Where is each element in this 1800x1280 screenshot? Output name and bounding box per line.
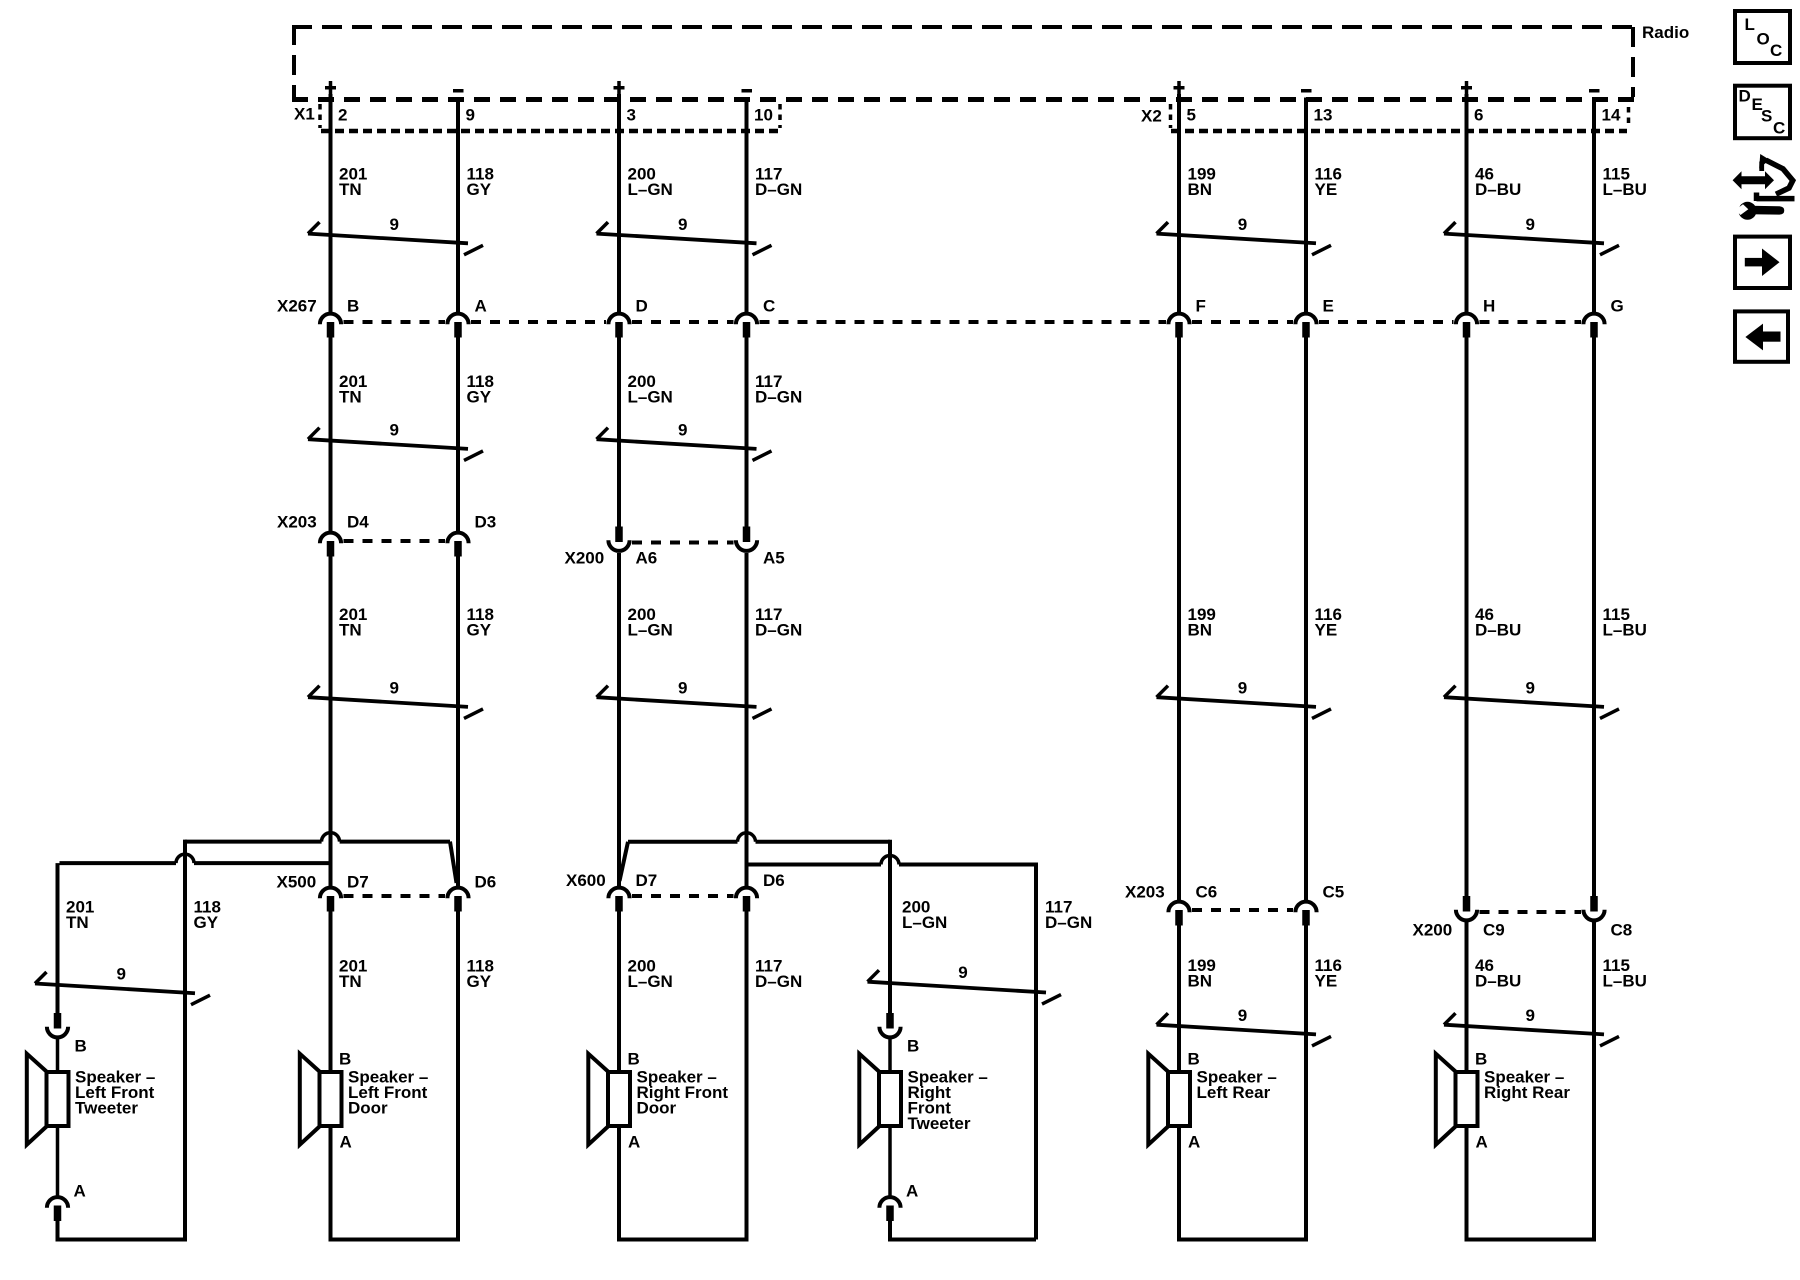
twisted pair 9 (cols 3-4, row 3) [597,697,757,707]
svg-text:C6: C6 [1196,883,1218,902]
svg-text:D: D [636,297,648,316]
svg-text:D–BU: D–BU [1475,972,1521,991]
X200 dashed line [632,541,734,545]
svg-text:D6: D6 [763,871,785,890]
icon box arrow left [1735,311,1788,361]
svg-text:D–BU: D–BU [1475,180,1521,199]
connector X200 pin C8 [1590,896,1598,912]
X200 rear dashed line [1480,910,1582,914]
X600 dashed line [632,894,734,898]
twisted pair 9 (cols 5-6, row 1) [1157,234,1317,244]
svg-text:C: C [763,297,775,316]
branch wire left tweeter + (TN) [194,861,331,865]
svg-text:Left Rear: Left Rear [1197,1083,1271,1102]
svg-text:X200: X200 [1413,921,1453,940]
wire 200 L-GN radio pin 3 to X267 [617,94,621,312]
connector X600 pin D6 [736,888,757,899]
svg-text:9: 9 [1238,1006,1247,1025]
wire 200 L-GN X200 to X600 [617,553,621,886]
wire 199 BN radio pin 5 to X267 [1177,94,1181,312]
svg-text:Right Rear: Right Rear [1484,1083,1570,1102]
svg-text:2: 2 [338,106,347,125]
connector X267 pin C [736,314,757,325]
wire 118 GY radio pin 9 to X267 [456,98,460,313]
svg-text:L–BU: L–BU [1603,621,1647,640]
svg-text:9: 9 [390,215,399,234]
left door loop [331,910,459,1240]
svg-text:Door: Door [348,1099,388,1118]
svg-text:C: C [1770,41,1782,60]
wire 200 L-GN X267 to X200 [617,337,621,527]
svg-text:D–GN: D–GN [755,180,802,199]
svg-text:Radio: Radio [1642,23,1689,42]
svg-text:9: 9 [678,215,687,234]
polarity - above pin col6 [1301,89,1312,93]
svg-text:L–BU: L–BU [1603,180,1647,199]
svg-text:A: A [906,1182,918,1201]
svg-text:D7: D7 [636,871,658,890]
hop over tweeter + leg [881,856,899,865]
svg-text:GY: GY [467,388,492,407]
inline connector B (right tweeter) [886,1013,894,1029]
svg-text:B: B [628,1050,640,1069]
connector X267 pin G [1583,314,1604,325]
connector X267 pin A [447,314,468,325]
hop over D-GN wire [738,833,756,842]
icon box DESC [1735,86,1790,139]
svg-text:A: A [340,1133,352,1152]
polarity + above pin col5 [1174,86,1185,90]
wire 46 D-BU X267 to X200 [1465,337,1469,897]
svg-text:C: C [1773,119,1785,138]
svg-text:A5: A5 [763,549,785,568]
svg-text:GY: GY [194,913,219,932]
wire 46 D-BU radio pin 6 to X267 [1465,94,1469,312]
svg-text:Tweeter: Tweeter [75,1099,138,1118]
left rear loop [1179,924,1306,1240]
svg-text:L–GN: L–GN [628,180,673,199]
twisted pair 9 (right rear) [1444,1025,1604,1035]
svg-text:GY: GY [467,972,492,991]
svg-text:X500: X500 [277,873,317,892]
svg-text:TN: TN [66,913,89,932]
svg-text:C5: C5 [1323,883,1345,902]
wire 116 YE radio pin 13 to X267 [1304,98,1308,313]
speaker icon Speaker - Left Front Tweeter [47,1072,69,1126]
svg-text:L–GN: L–GN [902,913,947,932]
wire into speaker B (right tweeter) [888,1039,892,1070]
svg-text:3: 3 [627,106,636,125]
svg-text:L: L [1745,15,1755,34]
connector X267 pin E [1295,314,1316,325]
wire 201 TN X267 to X203 [329,337,333,531]
twisted pair 9 (cols 1-2, row 2) [308,439,468,449]
svg-text:9: 9 [390,420,399,439]
svg-text:X600: X600 [566,871,606,890]
svg-text:L–GN: L–GN [628,972,673,991]
polarity - above pin col4 [742,89,753,93]
svg-text:X2: X2 [1141,107,1162,126]
svg-text:BN: BN [1188,621,1213,640]
icon tools/adjust [1733,171,1774,189]
svg-text:B: B [347,297,359,316]
svg-text:BN: BN [1188,972,1213,991]
speaker icon Speaker - Right Front Tweeter [879,1072,901,1126]
svg-text:9: 9 [1238,678,1247,697]
svg-text:Tweeter: Tweeter [908,1114,971,1133]
svg-text:D–BU: D–BU [1475,621,1521,640]
svg-text:E: E [1323,297,1334,316]
connector X500 pin D6 [447,888,468,899]
connector X200 pin A5 [743,527,751,543]
twisted pair 9 (cols 3-4, row 1) [597,234,757,244]
connector X500 pin D7 [320,888,341,899]
svg-text:B: B [1475,1050,1487,1069]
svg-text:D: D [1739,87,1751,106]
connector X203 pin C6 [1168,902,1189,913]
wire X200 C9 to rear speaker [1465,921,1469,1070]
twisted pair 9 (cols 7-8, row 1) [1444,234,1604,244]
polarity + above pin col7 [1461,86,1472,90]
svg-text:D–GN: D–GN [1045,913,1092,932]
svg-text:GY: GY [467,180,492,199]
wire into speaker B (left tweeter) [56,1039,60,1070]
svg-text:TN: TN [339,621,362,640]
svg-text:9: 9 [466,106,475,125]
svg-text:C9: C9 [1483,921,1505,940]
svg-text:A: A [628,1133,640,1152]
inline connector A (left tweeter) [47,1197,68,1208]
svg-text:L–BU: L–BU [1603,972,1647,991]
svg-text:D–GN: D–GN [755,972,802,991]
polarity - above pin col8 [1589,89,1600,93]
icon box arrow right [1735,237,1790,288]
svg-text:H: H [1483,297,1495,316]
twisted pair 9 (right tweeter) [868,982,1047,993]
wire 115 L-BU radio pin 14 to X267 [1592,98,1596,313]
right door loop [619,910,747,1240]
svg-text:G: G [1611,297,1624,316]
svg-text:C8: C8 [1611,921,1633,940]
connector X200 pin C9 [1463,896,1471,912]
wire right tweeter A to loop [890,1221,1036,1240]
wire X500 D7 to door speaker [329,910,333,1070]
twisted pair 9 (cols 7-8, row 3) [1444,697,1604,707]
svg-text:9: 9 [1526,678,1535,697]
svg-text:YE: YE [1315,180,1338,199]
svg-text:A: A [1188,1133,1200,1152]
svg-text:D7: D7 [347,873,369,892]
svg-text:9: 9 [390,678,399,697]
radio component dashed box [292,25,1635,29]
wire X600 D7 to door speaker [617,910,621,1070]
connector X267 pin B [320,314,341,325]
X203 rear dashed line [1192,908,1293,912]
speaker icon Speaker - Left Rear [1168,1072,1190,1126]
polarity + above pin col1 [325,86,336,90]
svg-text:X200: X200 [565,549,605,568]
svg-text:D6: D6 [475,873,497,892]
svg-text:6: 6 [1474,106,1483,125]
svg-text:A6: A6 [636,549,658,568]
wire 117 D-GN X200 to X600 [745,553,749,886]
twisted pair 9 (cols 1-2, row 3) [308,697,468,707]
connector X267 pin H [1456,314,1477,325]
hop over GY leg [176,854,194,863]
hop over TN wire [322,833,340,842]
inline connector A (right tweeter) [879,1197,900,1208]
svg-text:X203: X203 [277,513,317,532]
connector X203 pin C5 [1295,902,1316,913]
svg-text:10: 10 [754,106,773,125]
twisted pair 9 (cols 1-2, row 1) [308,234,468,244]
wire 117 D-GN X267 to X200 [745,337,749,527]
wire 201 TN radio pin 2 to X267 [329,94,333,312]
svg-text:9: 9 [117,965,126,984]
connector X1 band [318,104,322,128]
wire left tweeter A to loop [58,1221,186,1240]
twisted pair 9 (left rear) [1157,1025,1317,1035]
svg-text:X203: X203 [1125,883,1165,902]
speaker icon Speaker - Left Front Door [320,1072,342,1126]
branch wire right tweeter + (L-GN) [628,840,738,844]
svg-text:5: 5 [1187,106,1196,125]
svg-text:14: 14 [1602,106,1621,125]
wire left tweeter rect bottom to A connector [56,1128,60,1196]
right rear loop [1467,921,1595,1240]
icon box LOC [1735,11,1790,63]
inline connector B (left tweeter) [54,1013,62,1029]
connector X203 pin D3 [447,533,468,544]
svg-text:9: 9 [1238,215,1247,234]
svg-text:B: B [339,1050,351,1069]
wire 117 D-GN radio pin 10 to X267 [745,98,749,313]
polarity - above pin col2 [453,89,464,93]
svg-text:A: A [74,1182,86,1201]
svg-text:B: B [907,1037,919,1056]
svg-text:TN: TN [339,972,362,991]
X267 harness dashed line [344,320,446,324]
X203 dashed line [344,539,446,543]
svg-text:B: B [75,1037,87,1056]
speaker icon Speaker - Right Rear [1456,1072,1478,1126]
svg-text:A: A [1476,1133,1488,1152]
wire 118 GY X267 to X203 [456,337,460,531]
svg-text:A: A [475,297,487,316]
twisted pair 9 (left tweeter) [35,984,195,994]
twisted pair 9 (cols 3-4, row 2) [597,439,757,449]
wire X203 C6 to rear speaker [1177,924,1181,1070]
svg-text:D–GN: D–GN [755,621,802,640]
speaker icon Speaker - Right Front Door [608,1072,630,1126]
connector X200 pin A6 [615,527,623,543]
svg-text:X267: X267 [277,297,317,316]
branch wire right tweeter - (D-GN) [747,863,882,867]
svg-text:BN: BN [1188,180,1213,199]
svg-text:YE: YE [1315,972,1338,991]
svg-text:9: 9 [678,420,687,439]
connector X267 pin F [1168,314,1189,325]
connector X203 pin D4 [320,533,341,544]
svg-text:YE: YE [1315,621,1338,640]
svg-text:F: F [1196,297,1206,316]
wire 115 L-BU X267 to X200 [1592,337,1596,897]
wire 116 YE X267 to X203 [1304,337,1308,900]
svg-text:9: 9 [1526,1006,1535,1025]
svg-text:9: 9 [1526,215,1535,234]
svg-text:13: 13 [1314,106,1333,125]
branch wire left tweeter - (GY) [340,840,450,844]
connector X2 band [1169,104,1173,128]
svg-text:D3: D3 [475,513,497,532]
svg-text:D–GN: D–GN [755,388,802,407]
svg-text:L–GN: L–GN [628,388,673,407]
svg-text:Door: Door [637,1099,677,1118]
twisted pair 9 (cols 5-6, row 3) [1157,697,1317,707]
X500 dashed line [344,894,446,898]
wire 201 TN X203 to X500 [329,556,333,886]
svg-text:X1: X1 [294,105,315,124]
polarity + above pin col3 [614,86,625,90]
svg-text:D4: D4 [347,513,369,532]
svg-text:S: S [1761,107,1772,126]
wire right tweeter rect bottom to A connector [888,1128,892,1196]
svg-text:GY: GY [467,621,492,640]
svg-text:9: 9 [958,963,967,982]
svg-text:TN: TN [339,180,362,199]
svg-text:B: B [1188,1050,1200,1069]
connector X600 pin D7 [608,888,629,899]
svg-text:TN: TN [339,388,362,407]
wire 118 GY X203 to X500 [456,556,460,886]
svg-text:L–GN: L–GN [628,621,673,640]
svg-text:O: O [1757,30,1770,49]
connector X267 pin D [608,314,629,325]
wire 199 BN X267 to X203 [1177,337,1181,900]
svg-text:9: 9 [678,678,687,697]
